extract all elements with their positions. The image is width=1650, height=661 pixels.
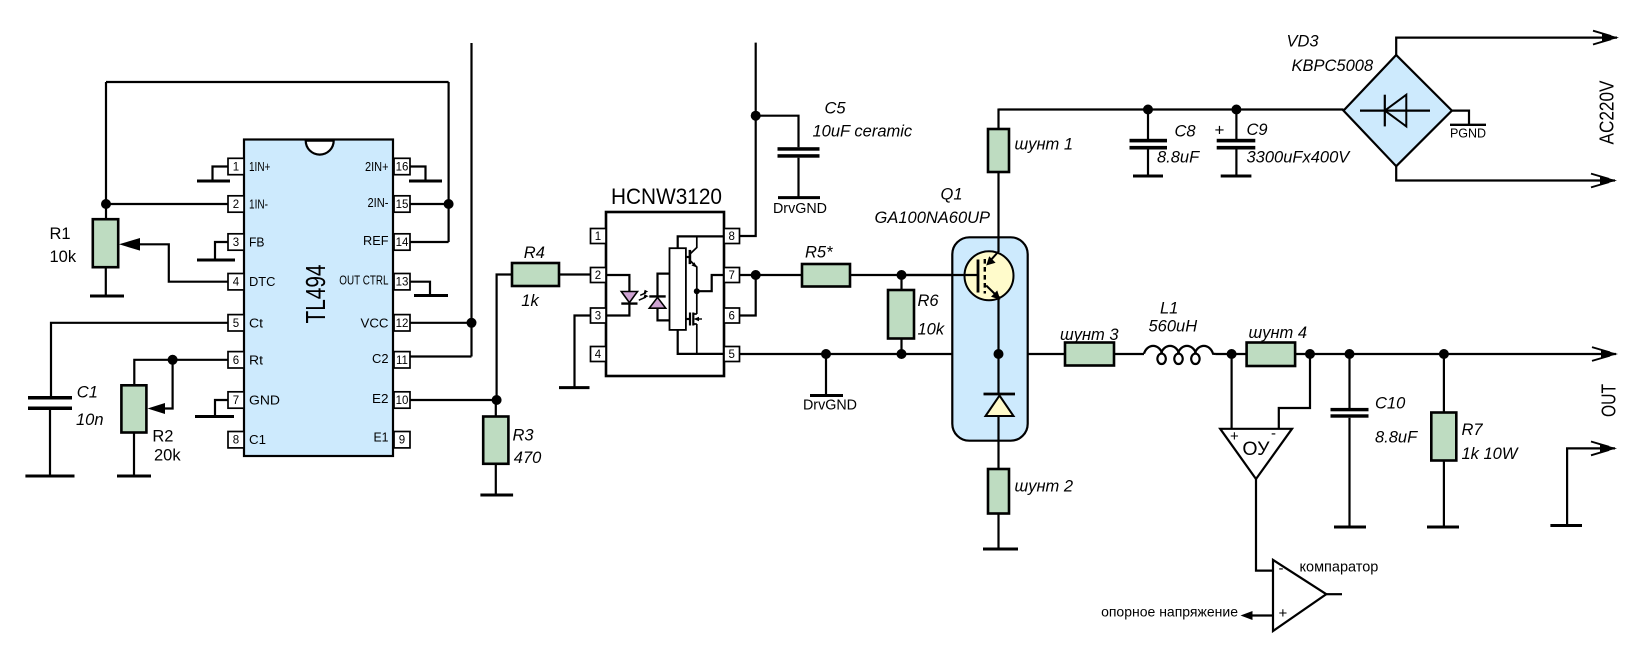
svg-text:-: - [1271,425,1276,442]
IC U1 TL494 body [244,140,393,457]
svg-text:+: + [1279,605,1288,622]
svg-text:3: 3 [233,237,239,249]
pin 11 box [394,352,410,368]
pin 5 box [228,315,244,331]
wire Vcc rail to pin8 [678,236,724,248]
IGBT Q1 symbol [965,251,1014,300]
capacitor C8 [1147,110,1149,140]
wire AC bottom with arrow [1396,166,1615,180]
svg-text:8.8uF: 8.8uF [1375,429,1418,447]
wire emitter bus pin5 [740,353,1145,355]
wire op-amp out to comparator [1256,479,1273,571]
svg-text:L1: L1 [1160,300,1178,318]
svg-text:8: 8 [728,231,734,243]
wire left vertical to 1IN- node [105,82,107,204]
pin 10 box [394,392,410,408]
transistor Q1 module body [952,237,1027,440]
resistor R4 [512,263,559,286]
node emitter bus [994,349,1004,359]
svg-text:VCC: VCC [361,315,389,330]
svg-text:PGND: PGND [1450,127,1486,141]
svg-text:3: 3 [595,311,601,323]
wire R5 to gate [850,274,978,276]
pin 2 box [228,196,244,212]
op-amp ОУ [1220,429,1292,479]
bridge rectifier VD3 [1344,55,1452,166]
node Rt [168,355,178,365]
svg-text:OUT CTRL: OUT CTRL [339,273,388,288]
HCNW pin 7 box [724,268,740,283]
node E2 [492,395,502,405]
wire top DC bus [999,108,1344,110]
wire pin6 up [740,275,756,316]
wire pin10 E2 [410,399,497,401]
wire VCC supply vertical [470,43,472,357]
svg-text:KBPC5008: KBPC5008 [1292,57,1374,75]
wire photodiode links [658,274,670,297]
svg-text:C8: C8 [1175,123,1197,141]
resistor R2 (potentiometer) [121,385,146,432]
svg-text:R2: R2 [152,428,173,446]
ground (R1) [90,295,124,298]
capacitor C5 [756,116,799,148]
svg-text:Q1: Q1 [941,186,963,204]
svg-text:11: 11 [396,355,408,367]
resistor R1 (potentiometer) [105,204,107,219]
node R6 bottom [897,349,907,359]
svg-text:шунт 4: шунт 4 [1249,324,1308,342]
node pin7 [751,270,761,280]
wire reference input [1249,614,1273,616]
wire top feedback bus [106,81,449,83]
svg-text:15: 15 [396,199,409,211]
optocoupler U2 HCNW3120 body [606,212,724,376]
resistor шунт 4 [1247,343,1296,367]
node C5 tap [751,111,761,121]
svg-text:1k: 1k [521,292,539,310]
svg-text:+: + [1215,121,1225,140]
HCNW pin 8 box [724,229,740,244]
svg-text:Ct: Ct [249,315,263,330]
HCNW pin 4 box [591,347,607,362]
svg-text:шунт 3: шунт 3 [1060,326,1119,344]
pin 1 stub tick [213,167,229,182]
wire base (gate) [902,274,979,276]
svg-text:GA100NA60UP: GA100NA60UP [875,209,991,227]
svg-text:5: 5 [728,349,734,361]
node DrvGND tap [821,349,831,359]
svg-text:1IN+: 1IN+ [249,159,270,174]
svg-text:7: 7 [233,395,239,407]
wire pin11 C2 [410,355,472,357]
wire R1 wiper to DTC [132,244,228,281]
svg-text:C1: C1 [249,432,266,447]
node C8 [1143,105,1153,115]
svg-text:C1: C1 [77,384,98,402]
svg-text:DrvGND: DrvGND [773,201,827,217]
svg-text:8: 8 [233,435,239,447]
wire collector top [997,109,999,130]
ground (C8) [1133,175,1163,178]
svg-text:AC220V: AC220V [1596,80,1619,144]
pin 13 box [394,274,410,290]
svg-text:7: 7 [728,270,734,282]
resistor R7 [1443,354,1445,413]
svg-text:C5: C5 [825,100,847,118]
svg-text:20k: 20k [154,447,181,465]
svg-text:5: 5 [233,318,239,330]
svg-text:DTC: DTC [249,274,276,289]
ground DrvGND (mid) [825,354,827,396]
inductor L1 [1144,346,1216,364]
wire shunt1 to IGBT [997,172,999,252]
PGND [1452,111,1469,125]
pin 3 box [228,234,244,250]
capacitor C9 [1235,110,1237,140]
svg-text:1IN-: 1IN- [249,197,268,212]
pin 6 box [228,352,244,368]
wire pin5 Ct [51,323,228,396]
svg-text:R3: R3 [513,427,535,445]
node inner [694,288,700,294]
pin 8 box [228,432,244,448]
HCNW pin 2 box [591,268,607,283]
wire AC top with arrow [1396,38,1617,55]
ground (C10) [1334,526,1366,529]
pin 13 stub tick [410,282,430,296]
svg-text:2IN+: 2IN+ [365,159,389,174]
HCNW pin 3 box [591,308,607,323]
svg-text:FB: FB [249,235,265,250]
svg-text:10: 10 [396,395,409,407]
svg-text:R1: R1 [50,225,71,243]
svg-text:14: 14 [396,237,409,249]
resistor R5* [802,264,850,287]
resistor шунт 1 [988,129,1009,172]
capacitor C10 [1348,354,1350,408]
ground (OUT return) [1550,524,1582,527]
node VCC [467,318,477,328]
svg-text:1k 10W: 1k 10W [1462,445,1519,463]
svg-text:компаратор: компаратор [1300,560,1379,576]
ground (R7) [1427,526,1459,529]
wire pin8 to supply [740,43,756,236]
svg-text:E2: E2 [372,391,389,406]
svg-text:R4: R4 [524,244,545,262]
wire comparator output [1326,593,1342,595]
ground (R3) [480,494,513,497]
wire R2 wiper [161,360,173,409]
HCNW pin 1 box [591,229,607,244]
node C10 tap [1345,349,1355,359]
svg-text:560uH: 560uH [1149,318,1198,336]
svg-text:OUT: OUT [1598,384,1621,417]
pin 3 stub tick [215,242,228,260]
node B (2IN- / REF) [444,199,454,209]
ground DrvGND (C5) [778,196,820,199]
svg-text:VD3: VD3 [1287,33,1320,51]
wire bus to OUT with arrow [1216,353,1616,355]
wire pin14 REF [410,241,449,243]
wire to pin 7 [697,275,724,291]
wire LED branch [606,275,629,292]
wire op-amp - input [1279,354,1310,429]
svg-text:GND: GND [249,393,280,408]
svg-text:R5*: R5* [805,244,833,262]
node R7 tap [1439,349,1449,359]
pin 9 box [394,432,410,448]
LED D1 [621,292,637,303]
wire R4 branch [497,275,512,401]
svg-text:3300uFx400V: 3300uFx400V [1247,149,1352,167]
ground (шунт 2) [983,548,1018,551]
wire pin15 2IN- [410,203,449,205]
pin 16 stub tick [410,167,426,182]
svg-text:10k: 10k [918,321,945,339]
svg-text:Rt: Rt [249,352,263,367]
resistor R6 [900,275,902,290]
transistor M (mosfet, inner) [686,318,690,320]
svg-text:C2: C2 [372,351,389,366]
svg-text:9: 9 [399,435,405,447]
pin 15 box [394,196,410,212]
wire pin12 VCC [410,322,472,324]
light transfer arrows [639,293,646,300]
transistor Q (npn, inner) [689,250,692,264]
svg-text:опорное напряжение: опорное напряжение [1101,604,1238,620]
wire OUT return with arrow [1567,448,1615,525]
svg-text:2: 2 [233,199,239,211]
ground (C9) [1221,175,1252,178]
diode VD (freewheel) [984,393,1016,396]
svg-text:шунт 1: шунт 1 [1015,136,1074,154]
svg-text:6: 6 [728,311,734,323]
svg-text:2IN-: 2IN- [368,195,389,210]
pin 14 box [394,234,410,250]
svg-text:C10: C10 [1375,395,1406,413]
resistor шунт 3 [1065,343,1114,366]
capacitor C1 [28,396,72,400]
svg-text:470: 470 [514,449,542,467]
svg-text:4: 4 [233,277,240,289]
wire right vertical to 2IN- node [448,82,450,242]
svg-text:6: 6 [233,355,239,367]
svg-text:13: 13 [396,277,409,289]
ground (C1) [25,475,74,478]
node L1 out [1227,349,1237,359]
wire pin6 Rt [134,360,228,386]
svg-text:R6: R6 [918,292,940,310]
svg-text:E1: E1 [374,430,389,445]
pin 7 box [228,392,244,408]
svg-text:8.8uF: 8.8uF [1157,149,1200,167]
photodiode D2 [649,295,665,297]
pin 12 box [394,315,410,331]
pin 4 box [228,274,244,290]
svg-text:ОУ: ОУ [1242,438,1270,460]
node A (R1 top / 1IN-) [101,199,111,209]
HCNW pin 5 box [724,347,740,362]
svg-text:C9: C9 [1247,121,1268,139]
svg-text:2: 2 [595,270,601,282]
svg-text:16: 16 [396,162,409,174]
node C9 [1231,105,1241,115]
wire gnd rail to pin5 [678,330,724,354]
ground (R2) [117,475,151,478]
svg-text:DrvGND: DrvGND [803,398,857,414]
svg-text:R7: R7 [1462,421,1484,439]
svg-text:HCNW3120: HCNW3120 [611,184,722,209]
svg-text:4: 4 [595,349,602,361]
svg-text:-: - [1279,560,1284,577]
svg-text:REF: REF [363,233,389,248]
driver block [670,248,686,330]
HCNW pin 6 box [724,308,740,323]
svg-text:1: 1 [595,231,601,243]
svg-text:+: + [1230,428,1239,445]
svg-text:1: 1 [233,162,239,174]
pin 7 stub tick [215,400,228,417]
wire op-amp + input [1230,354,1232,429]
wire emitter down [997,296,999,394]
svg-text:TL494: TL494 [300,265,331,324]
svg-text:10n: 10n [76,411,104,429]
svg-text:10uF ceramic: 10uF ceramic [813,123,913,141]
wire pin7 to R5 [740,274,803,276]
svg-text:10k: 10k [50,248,77,266]
node R5/R6 [897,270,907,280]
node шунт4 right [1305,349,1315,359]
resistor R3 [495,400,497,417]
svg-text:12: 12 [396,318,409,330]
pin 3 stub tick (HCNW) [575,316,591,388]
resistor шунт 2 [988,469,1009,514]
pin 1 box [228,158,244,174]
svg-text:шунт 2: шунт 2 [1015,478,1074,496]
wire pin2 1IN- [106,203,228,205]
comparator [1273,560,1326,631]
pin 16 box [394,158,410,174]
